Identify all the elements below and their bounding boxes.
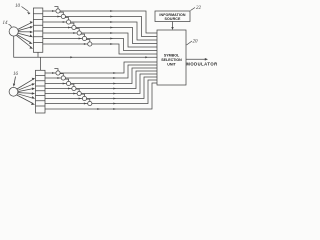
modulator circle row 2 ch5 xyxy=(76,89,82,96)
wire from array2 ch8 to unit xyxy=(45,83,157,109)
splitter array 2 xyxy=(36,70,46,113)
label 22 xyxy=(191,6,202,11)
svg-text:SOURCE: SOURCE xyxy=(165,17,181,21)
symbol selection unit box xyxy=(157,30,186,85)
modulator circle row 2 ch7 xyxy=(86,99,92,106)
svg-text:14: 14 xyxy=(3,21,9,26)
modulator circle row 1 ch6 xyxy=(81,34,87,41)
wire from array1 ch1 to unit xyxy=(43,11,157,33)
arrowheads on array2 output wires xyxy=(52,72,116,110)
modulator circle row 2 ch4 xyxy=(70,84,76,91)
svg-text:UNIT: UNIT xyxy=(167,63,176,67)
svg-text:20: 20 xyxy=(193,40,199,45)
svg-text:MODULATOR: MODULATOR xyxy=(186,61,217,66)
output arrow to modulator xyxy=(186,58,218,66)
modulator circle row 2 ch1 xyxy=(54,69,60,76)
label 20 xyxy=(187,40,199,46)
modulator circle row 2 ch2 xyxy=(60,74,66,81)
arrowheads on array1 output wires xyxy=(52,10,113,45)
label 14 xyxy=(3,21,12,27)
label 16 xyxy=(13,72,19,87)
information source box xyxy=(155,11,190,22)
modulator circle row 1 ch3 xyxy=(65,18,71,24)
wire from array2 ch2 to unit xyxy=(45,65,157,78)
svg-text:SELECTION: SELECTION xyxy=(161,58,182,62)
modulator circle row 1 ch4 xyxy=(70,23,76,29)
wire information source to unit xyxy=(171,22,173,31)
svg-text:SYMBOL: SYMBOL xyxy=(164,54,180,58)
wire from array1 ch2 to unit xyxy=(43,17,157,37)
modulator circle row 1 ch5 xyxy=(76,29,82,35)
source circle 14 xyxy=(9,27,18,36)
modulator circle row 1 ch2 xyxy=(60,12,66,18)
bus wire from source 14 to unit xyxy=(14,36,157,70)
wire from array2 ch7 to unit xyxy=(45,80,157,104)
svg-text:16: 16 xyxy=(13,72,19,77)
wire from array2 ch3 to unit xyxy=(45,68,157,84)
wire from array2 ch5 to unit xyxy=(45,74,157,94)
wire from array1 ch6 to unit xyxy=(43,39,157,51)
source circle 16 xyxy=(9,87,18,96)
wire from array1 ch3 to unit xyxy=(43,22,157,40)
modulator circle row 2 ch6 xyxy=(81,94,87,101)
splitter array 1 xyxy=(33,8,42,52)
wire from array1 ch4 to unit xyxy=(43,28,157,44)
modulator circle row 1 ch7 xyxy=(86,40,92,47)
wire from array1 ch5 to unit xyxy=(43,33,157,47)
label 10 xyxy=(15,4,31,15)
wire from array2 ch4 to unit xyxy=(45,71,157,89)
wire from array2 ch1 to unit xyxy=(45,62,157,73)
modulator circle row 2 ch3 xyxy=(65,79,71,86)
svg-text:10: 10 xyxy=(15,4,21,9)
wire fan from source 14 xyxy=(17,21,34,49)
wire fan from source 16 xyxy=(17,78,35,105)
svg-text:22: 22 xyxy=(196,6,202,11)
modulator circle row 1 ch1 xyxy=(54,7,60,13)
wire from array2 ch6 to unit xyxy=(45,77,157,99)
wire from array1 ch7 to unit xyxy=(43,44,157,54)
